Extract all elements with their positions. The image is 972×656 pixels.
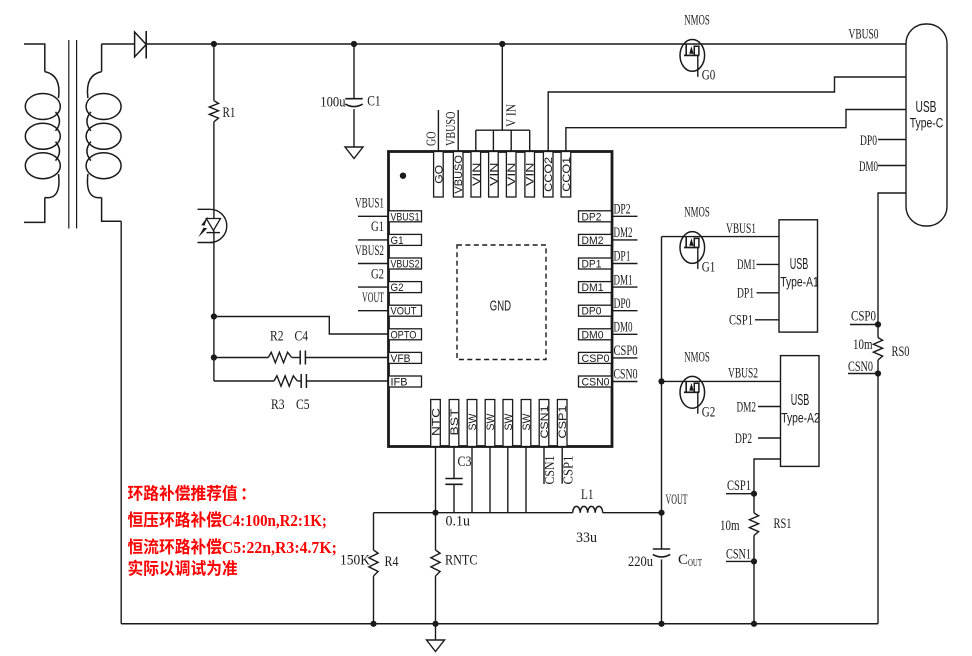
- junction CSN0 node: [875, 370, 881, 376]
- svg-text:GND: GND: [490, 299, 511, 315]
- wire DP2 stub to Type-A2: [758, 437, 781, 439]
- resistor RNTC: [431, 550, 440, 576]
- wire stub CSN0 (right): [612, 381, 638, 383]
- svg-text:VFB: VFB: [391, 353, 411, 365]
- svg-text:CSN0: CSN0: [582, 377, 610, 389]
- wire stub DP0 (right): [612, 310, 638, 312]
- svg-text:Type-A2: Type-A2: [781, 411, 820, 426]
- svg-text:0.1u: 0.1u: [446, 514, 471, 530]
- svg-text:VIN: VIN: [488, 162, 500, 186]
- IC pin OPTO (left, y=334.3): [389, 329, 422, 342]
- svg-text:DM0: DM0: [582, 329, 604, 341]
- junction rail / C1 branch: [351, 41, 357, 47]
- wire SW pin x=490 down to SW node: [489, 447, 491, 513]
- svg-text:RS1: RS1: [774, 516, 792, 532]
- svg-text:SW: SW: [503, 413, 515, 431]
- transistor Q1 NMOS G1: [680, 232, 705, 269]
- svg-text:C5:22n,R3:4.7K;: C5:22n,R3:4.7K;: [222, 538, 337, 557]
- USB Type-A2 connector J3: [781, 356, 820, 467]
- svg-text:VBUS0: VBUS0: [849, 27, 879, 43]
- wire stub DP2 (right): [612, 215, 638, 217]
- IC pin DP0 (right, y=310.7): [579, 305, 612, 318]
- svg-text:DM2: DM2: [614, 225, 633, 241]
- wire R4 to ground bus: [373, 576, 375, 624]
- svg-text:DP0: DP0: [582, 306, 602, 318]
- svg-text:SW: SW: [521, 413, 533, 431]
- wire DM1 stub to Type-A1: [757, 263, 780, 265]
- wire secondary return to ground bus: [120, 221, 122, 624]
- capacitor C5: [301, 374, 306, 388]
- resistor R2: [268, 352, 291, 362]
- svg-text:CSP1: CSP1: [557, 406, 569, 439]
- junction VOUT / L1 / COUT: [658, 510, 664, 516]
- svg-text:SW: SW: [485, 413, 497, 431]
- wire through optocoupler anode: [213, 209, 215, 218]
- IC pin GO (top, x=438.4): [433, 152, 445, 198]
- svg-text:CSN1: CSN1: [539, 406, 551, 439]
- junction rail / R1 branch: [211, 41, 217, 47]
- IC pin DP2 (right, y=216.3): [579, 211, 612, 224]
- svg-text:CSP1: CSP1: [729, 313, 753, 329]
- wire CSP0 net label underline: [850, 324, 878, 326]
- svg-text:DM2: DM2: [582, 235, 604, 247]
- svg-text:G2: G2: [371, 266, 384, 282]
- svg-text:OPTO: OPTO: [391, 329, 417, 341]
- wire CSP0 to RS0: [877, 325, 879, 338]
- svg-text:DM0: DM0: [859, 159, 878, 175]
- transformer T1 primary winding: [24, 44, 60, 222]
- svg-text:Type-A1: Type-A1: [780, 275, 819, 290]
- wire CSN0 net label underline: [848, 373, 878, 375]
- IC pin NTC (bottom, x=435.5): [431, 400, 443, 447]
- wire VOUT rail through Q1 to USB Type-A1 VBUS1: [662, 236, 780, 238]
- svg-text:NMOS: NMOS: [684, 205, 710, 221]
- wire R2 to C4: [292, 357, 301, 359]
- IC pin CSN1 (bottom, x=544): [539, 400, 551, 447]
- svg-text:CSP1: CSP1: [727, 478, 751, 494]
- op-amp/controller IC U1 body: [389, 152, 613, 447]
- ground symbol below RNTC: [427, 640, 445, 652]
- wire CSN1 pin stub down: [543, 447, 545, 485]
- junction OPTO node: [211, 313, 217, 319]
- wire ground bus to ground symbol: [435, 624, 437, 640]
- wire stub G1 (left): [358, 239, 389, 241]
- wire stub VBUS2 (left): [358, 263, 389, 265]
- svg-text:DM1: DM1: [582, 282, 604, 294]
- IC pin VOUT (left, y=310.7): [389, 305, 422, 318]
- svg-text:DM1: DM1: [614, 272, 633, 288]
- svg-text:CSN0: CSN0: [848, 359, 873, 375]
- wire CSP1 to RS1: [753, 494, 755, 513]
- svg-text:33u: 33u: [576, 530, 597, 546]
- junction RS1 / ground bus: [751, 621, 757, 627]
- IC pin VIN (top, x=529.7): [525, 152, 537, 198]
- svg-text:DP2: DP2: [614, 202, 631, 218]
- IC pin CCO1 (top, x=565.9): [561, 152, 573, 198]
- wire node to OPTO pin: [214, 317, 389, 335]
- IC pin VIN (top, x=493.4): [488, 152, 500, 198]
- svg-text:USB: USB: [916, 99, 937, 116]
- svg-text:CSN1: CSN1: [542, 456, 557, 485]
- svg-text:150K: 150K: [340, 553, 370, 569]
- wire SW pin x=526 down to SW node: [525, 447, 527, 513]
- IC pin CSP0 (right, y=357.9): [579, 352, 612, 365]
- svg-text:10m: 10m: [853, 337, 873, 353]
- wire R3 to C5: [297, 380, 301, 382]
- resistor R3: [274, 376, 297, 386]
- junction rail / VIN riser: [499, 41, 505, 47]
- IC pin VBUS2 (left, y=263.5): [389, 258, 422, 271]
- svg-text:VIN: VIN: [506, 162, 518, 186]
- svg-text:USB: USB: [790, 256, 809, 273]
- svg-text:DP0: DP0: [860, 133, 877, 149]
- wire CSN1 net label underline: [726, 560, 754, 562]
- IC pin SW (bottom, x=472): [467, 400, 479, 447]
- wire stub DM1 (right): [612, 286, 638, 288]
- wire secondary top to diode D1: [101, 43, 134, 45]
- svg-text:DM1: DM1: [737, 257, 756, 273]
- junction CSP1 node: [751, 491, 757, 497]
- IC pin VBUSO (top, x=458.2): [453, 152, 465, 198]
- wire C1 to ground: [353, 109, 355, 147]
- svg-text:Type-C: Type-C: [910, 115, 944, 130]
- IC pin DP1 (right, y=263.5): [579, 258, 612, 271]
- svg-text:VBUS1: VBUS1: [726, 221, 756, 237]
- wire stub DP1 (right): [612, 263, 638, 265]
- svg-text:DP1: DP1: [582, 259, 602, 271]
- wire VIN rail (diode to USB Type-C VBUS0): [146, 43, 906, 45]
- svg-text:CSN0: CSN0: [614, 367, 638, 383]
- wire C4 to VFB pin: [305, 357, 388, 359]
- junction COUT / ground bus: [658, 621, 664, 627]
- IC pin VFB (left, y=357.9): [389, 352, 422, 365]
- svg-text:VIN: VIN: [471, 162, 483, 186]
- wire C3 to SW line: [453, 484, 455, 512]
- IC pin VIN (top, x=511.2): [506, 152, 518, 198]
- wire rail to C1: [353, 44, 355, 99]
- svg-text:VOUT: VOUT: [666, 492, 688, 508]
- svg-text:RS0: RS0: [892, 344, 910, 360]
- wire CCO2 to USB Type-C CC2: [548, 77, 906, 152]
- IC pin BST (bottom, x=454): [449, 400, 461, 447]
- wire C5 to IFB pin: [306, 380, 388, 382]
- wire rail to VIN bus riser: [501, 44, 503, 130]
- wire stub VBUS1 (left): [358, 215, 389, 217]
- resistor RS1: [749, 513, 758, 536]
- wire CSP1 pin stub down: [561, 447, 563, 484]
- svg-text:VOUT: VOUT: [391, 306, 417, 318]
- wire CCO1 to USB Type-C CC1: [566, 110, 906, 152]
- svg-text:G2: G2: [391, 282, 404, 294]
- wire VOUT rail up to Q1: [661, 237, 663, 513]
- wire stub DM0 (right): [612, 333, 638, 335]
- svg-text:C1: C1: [367, 94, 380, 110]
- resistor R4: [369, 550, 378, 576]
- USB Type-A1 connector J2: [779, 220, 818, 332]
- capacitor C3: [445, 479, 462, 485]
- wire rail to R1: [213, 44, 215, 101]
- wire DP0 stub to Type-C: [878, 139, 906, 141]
- svg-text:VIN: VIN: [525, 162, 537, 186]
- resistor RS0: [873, 338, 882, 361]
- transformer T1 secondary winding: [86, 44, 121, 221]
- diode D1: [135, 31, 147, 59]
- capacitor C4: [300, 351, 305, 365]
- svg-text:C5: C5: [296, 397, 310, 413]
- svg-text:G1: G1: [391, 235, 404, 247]
- capacitor C1 (polarized): [345, 99, 362, 107]
- IC pin CSN0 (right, y=381.5): [579, 376, 612, 389]
- svg-text:100u: 100u: [320, 95, 346, 111]
- optocoupler photodiode U2: [198, 209, 227, 242]
- svg-text:R4: R4: [385, 554, 399, 570]
- svg-text:CCO1: CCO1: [561, 157, 573, 192]
- svg-text:G2: G2: [702, 404, 716, 420]
- IC pin SW (bottom, x=507.8): [503, 400, 515, 447]
- svg-text:DP0: DP0: [614, 296, 631, 312]
- svg-text:NMOS: NMOS: [684, 13, 710, 29]
- wire CSP1 net label underline: [726, 493, 754, 495]
- svg-text:G1: G1: [371, 219, 384, 235]
- svg-text:CSP0: CSP0: [582, 353, 610, 365]
- IC U1 pin-1 marker: [400, 173, 406, 179]
- svg-text:DP2: DP2: [582, 211, 602, 223]
- IC pin SW (bottom, x=490): [485, 400, 497, 447]
- wire DM0 stub to Type-C: [878, 165, 906, 167]
- transformer T1 core: [69, 40, 77, 229]
- IC pin G2 (left, y=287.1): [389, 282, 422, 295]
- svg-text:C4: C4: [295, 329, 309, 345]
- svg-text:VBUS1: VBUS1: [391, 211, 420, 223]
- IC pin VIN (top, x=475.8): [471, 152, 483, 198]
- svg-text:CSP1: CSP1: [560, 456, 575, 485]
- capacitor COUT (polarized): [653, 549, 670, 557]
- junction RNTC / ground bus: [432, 621, 438, 627]
- svg-text:10m: 10m: [720, 518, 740, 534]
- wire node to R2: [214, 357, 268, 359]
- wire RS0 to ground bus: [877, 360, 879, 624]
- svg-text:DM2: DM2: [737, 400, 757, 416]
- svg-text:VBUSO: VBUSO: [443, 111, 458, 146]
- svg-text:GO: GO: [423, 131, 438, 146]
- IC pin IFB (left, y=381.5): [389, 376, 422, 389]
- svg-text:R2: R2: [270, 329, 284, 345]
- svg-text:VBUS1: VBUS1: [355, 196, 384, 212]
- junction R4 / ground bus: [370, 621, 376, 627]
- svg-text:VBUS2: VBUS2: [391, 259, 420, 271]
- svg-text:V IN: V IN: [504, 104, 519, 127]
- svg-text:DP2: DP2: [735, 431, 752, 447]
- wire DP1 stub to Type-A1: [757, 292, 780, 294]
- wire SW pin x=472 down to SW node: [471, 447, 473, 513]
- wire VBUSO pin stub up: [457, 110, 459, 152]
- wire stub DM2 (right): [612, 239, 638, 241]
- wire to R4: [373, 513, 375, 550]
- svg-text:CCO2: CCO2: [543, 157, 555, 192]
- wire stub VOUT (left): [358, 310, 389, 312]
- svg-text:DP1: DP1: [737, 286, 754, 302]
- IC U1 thermal pad GND (dashed): [457, 245, 546, 360]
- wire feedback branch down: [213, 317, 215, 382]
- annotation red text: loop compensation recommendations: [128, 485, 337, 576]
- junction VOUT rail / Q2: [658, 378, 664, 384]
- wire DM2 stub to Type-A2: [758, 406, 781, 408]
- wire CSP1 stub to Type-A1: [755, 319, 779, 321]
- IC pin G1 (left, y=239.9): [389, 234, 422, 247]
- svg-text:VOUT: VOUT: [362, 290, 384, 306]
- svg-text:DM0: DM0: [614, 320, 633, 336]
- svg-text:IFB: IFB: [391, 377, 408, 389]
- resistor R1: [209, 101, 218, 122]
- wire R1 to optocoupler U2: [213, 122, 215, 210]
- wire VOUT node to COUT: [661, 513, 663, 549]
- IC pin DM2 (right, y=239.9): [579, 234, 612, 247]
- svg-text:VBUSO: VBUSO: [453, 155, 465, 194]
- svg-text:NMOS: NMOS: [684, 349, 710, 365]
- wire SW pin x=507.8 down to SW node: [507, 447, 509, 513]
- svg-text:R1: R1: [223, 105, 236, 121]
- IC pin CSP1 (bottom, x=562.2): [557, 400, 569, 447]
- wire ground bus (bottom): [121, 623, 878, 625]
- svg-text:BST: BST: [449, 408, 461, 435]
- VIN bus over IC: [476, 130, 530, 151]
- wire optocoupler cathode down: [213, 231, 215, 317]
- IC pin SW (bottom, x=526): [521, 400, 533, 447]
- wire stub CSP0 (right): [612, 357, 638, 359]
- junction CSP0 node: [875, 321, 881, 327]
- wire Type-A2 CSP1 sense down: [754, 459, 781, 494]
- inductor L1: [573, 506, 603, 512]
- svg-text:G0: G0: [702, 68, 716, 84]
- wire NTC pin down to NTC node: [435, 447, 437, 513]
- svg-text:RNTC: RNTC: [445, 553, 478, 569]
- svg-text:NTC: NTC: [431, 408, 443, 436]
- USB Type-C connector J1: [906, 24, 947, 226]
- svg-text:SW: SW: [467, 413, 479, 431]
- svg-text:CSP0: CSP0: [614, 343, 638, 359]
- IC pin VBUS1 (left, y=216.3): [389, 211, 422, 224]
- wire COUT to ground bus: [661, 559, 663, 623]
- svg-text:R3: R3: [271, 397, 285, 413]
- svg-text:CSN1: CSN1: [726, 547, 751, 563]
- IC pin DM0 (right, y=334.3): [579, 329, 612, 342]
- wire R4 top to SW rail / L1: [374, 512, 573, 514]
- svg-text:C4:100n,R2:1K;: C4:100n,R2:1K;: [222, 511, 327, 530]
- junction CSN1 node: [751, 558, 757, 564]
- svg-text:220u: 220u: [628, 554, 653, 570]
- wire node to R3: [214, 380, 274, 382]
- wire BST pin to C3: [453, 447, 455, 479]
- transistor Q0 NMOS G0: [680, 40, 705, 77]
- svg-text:L1: L1: [581, 487, 594, 503]
- svg-text:GO: GO: [433, 164, 445, 183]
- wire RNTC to ground bus: [435, 576, 437, 624]
- IC pin DM1 (right, y=287.1): [579, 282, 612, 295]
- svg-text:VBUS2: VBUS2: [728, 366, 758, 382]
- junction NTC / R4 / RNTC node: [432, 510, 438, 516]
- wire VOUT rail through Q2 to USB Type-A2 VBUS2: [662, 380, 781, 382]
- svg-text:C3: C3: [458, 454, 472, 470]
- svg-text:VBUS2: VBUS2: [355, 243, 384, 259]
- IC pin CCO2 (top, x=548.2): [543, 152, 555, 198]
- wire RS1 to ground bus: [753, 536, 755, 624]
- ground symbol below C1: [345, 147, 363, 159]
- svg-text:DP1: DP1: [614, 249, 631, 265]
- svg-text:CSP0: CSP0: [851, 309, 876, 325]
- wire Type-C VBUS sense down to CSP0: [878, 193, 906, 325]
- wire stub G2 (left): [358, 286, 389, 288]
- wire GO pin stub up: [437, 110, 439, 152]
- svg-text:USB: USB: [791, 392, 810, 409]
- junction VFB node: [211, 354, 217, 360]
- wire L1 to VOUT node: [603, 512, 662, 514]
- svg-text:G1: G1: [702, 260, 716, 276]
- wire NTC node to RNTC: [435, 513, 437, 550]
- transistor Q2 NMOS G2: [680, 376, 705, 413]
